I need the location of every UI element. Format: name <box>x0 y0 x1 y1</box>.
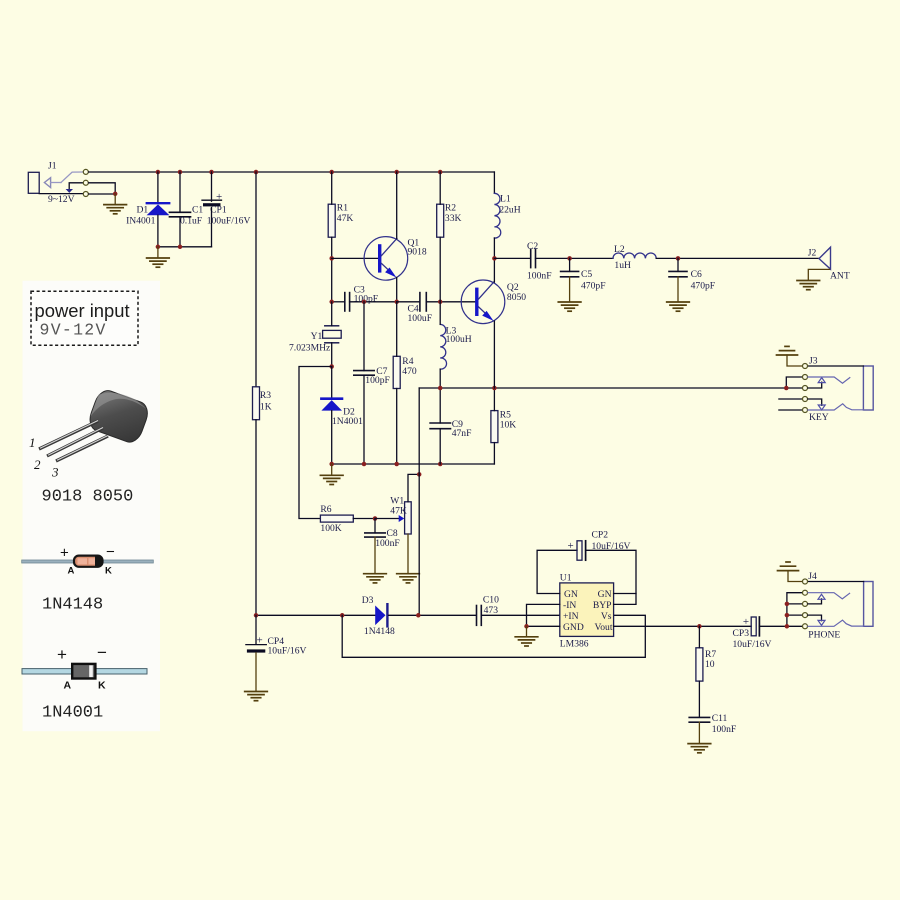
svg-text:GND: GND <box>563 622 584 633</box>
node rail C1 <box>178 170 183 175</box>
svg-text:1N4001: 1N4001 <box>332 416 363 427</box>
svg-text:47nF: 47nF <box>452 428 472 439</box>
svg-text:+: + <box>216 191 222 203</box>
J4 pin 1 circle <box>803 579 808 584</box>
resistor R7 <box>696 648 703 681</box>
wire Q1 emitter vertical <box>396 278 398 302</box>
wire Y1 node to R6 branch <box>299 367 332 519</box>
wire GN left pin to CP2 <box>537 550 577 593</box>
svg-text:+: + <box>743 616 749 628</box>
svg-text:10uF/16V: 10uF/16V <box>268 646 307 657</box>
wire C1 top <box>179 172 181 212</box>
svg-text:+: + <box>568 540 574 552</box>
wire J3 pin1 to body <box>808 365 864 367</box>
resistor R6 horizontal <box>320 515 353 522</box>
svg-text:power input: power input <box>35 300 130 321</box>
diode D1 <box>147 203 170 215</box>
svg-text:−: − <box>97 643 107 662</box>
svg-text:0.1uF: 0.1uF <box>180 215 202 226</box>
svg-text:1uH: 1uH <box>614 260 631 271</box>
J3 pin 5 circle <box>803 408 808 413</box>
wire R2 bottom <box>439 237 441 302</box>
svg-text:J3: J3 <box>809 355 818 366</box>
wire Vs feedback loop <box>342 615 645 657</box>
ground J1 <box>104 205 127 214</box>
svg-text:C1: C1 <box>192 205 203 216</box>
resistor R2 <box>437 204 444 237</box>
capacitor C2 <box>531 249 536 267</box>
svg-text:BYP: BYP <box>593 600 612 611</box>
svg-text:L2: L2 <box>614 244 625 255</box>
svg-text:Y1: Y1 <box>311 331 323 342</box>
svg-text:J2: J2 <box>808 247 817 258</box>
wire bottom bus D1-C1-CP1 <box>158 246 212 248</box>
wire R6 right to C8 node <box>353 518 375 520</box>
svg-text:9018 8050: 9018 8050 <box>42 488 134 507</box>
svg-text:473: 473 <box>484 605 499 616</box>
svg-text:C5: C5 <box>581 269 592 280</box>
power input dashed box <box>31 291 138 345</box>
svg-text:8050: 8050 <box>507 292 526 303</box>
node bottom rail C7 <box>362 462 367 467</box>
svg-text:9V-12V: 9V-12V <box>40 321 107 340</box>
capacitor C9 <box>430 423 450 429</box>
wire R7 top <box>698 626 700 648</box>
J1 switch lever <box>61 172 83 183</box>
wire CP4 top <box>255 615 257 644</box>
capacitor C11 <box>689 717 709 722</box>
diode photo 1N4001 <box>22 643 147 692</box>
transistor photo TO-92 <box>29 386 152 479</box>
svg-text:470pF: 470pF <box>691 280 716 291</box>
node Q1 emitter / R4 <box>394 300 399 305</box>
svg-text:IN4001: IN4001 <box>126 215 156 226</box>
svg-text:10: 10 <box>705 659 715 670</box>
wire C4 line left <box>397 301 420 303</box>
wire CP2 right to BYP <box>586 550 636 604</box>
ground bottom rail <box>320 475 343 484</box>
node KEY Q2 emitter <box>492 386 497 391</box>
inductor L1 <box>494 193 500 238</box>
wire Y1 top <box>331 302 333 326</box>
node bottom bus D1 <box>156 245 161 250</box>
J1 pin 1 circle <box>83 169 88 174</box>
svg-text:100uF/16V: 100uF/16V <box>207 215 251 226</box>
wire Q1 base <box>332 257 378 259</box>
wire L3 bottom <box>439 369 441 388</box>
wire Y1 bottom <box>331 343 333 367</box>
wire pin3 to ground node <box>89 193 116 195</box>
wire ground stem C6 <box>677 277 679 302</box>
svg-text:C6: C6 <box>691 269 702 280</box>
wire audio line left <box>256 614 375 616</box>
wire CP1 top <box>211 172 213 201</box>
node R2 L3 base junction <box>438 300 443 305</box>
ground J4 inverted <box>778 562 799 571</box>
svg-text:A: A <box>68 566 75 577</box>
svg-text:+: + <box>257 635 263 647</box>
svg-text:A: A <box>64 680 72 692</box>
connector J4 jack body <box>864 582 873 627</box>
J1 down arrow contact <box>66 189 73 193</box>
transistor Q1 <box>364 237 408 281</box>
svg-text:J4: J4 <box>808 571 817 582</box>
svg-text:100K: 100K <box>320 523 341 534</box>
node audio R3 CP4 <box>254 613 259 618</box>
J3 pin 2 circle <box>803 375 808 380</box>
wire D2 top <box>331 367 333 399</box>
node rail R3 <box>254 170 259 175</box>
node rail CP1 <box>209 170 214 175</box>
svg-text:1N4001: 1N4001 <box>42 704 103 723</box>
capacitor CP4 electrolytic <box>246 645 266 653</box>
svg-text:2: 2 <box>34 457 41 472</box>
wire ground stem C8 <box>374 537 376 573</box>
node bottom rail C9 <box>438 462 443 467</box>
svg-text:L1: L1 <box>500 194 511 205</box>
IC U1 LM386 box <box>560 583 614 637</box>
svg-text:47K: 47K <box>337 213 354 224</box>
svg-text:U1: U1 <box>560 573 572 584</box>
svg-text:ANT: ANT <box>830 271 850 282</box>
wire pin2 to ground node <box>89 183 116 194</box>
svg-text:10uF/16V: 10uF/16V <box>733 639 772 650</box>
svg-text:-IN: -IN <box>563 600 576 611</box>
J3 pin 4 circle <box>803 397 808 402</box>
wire ground stem J1 <box>114 194 116 205</box>
wire ground stem bottom rail <box>331 464 333 475</box>
node W1 top on KEY vertical <box>417 472 422 477</box>
node Y1 bottom junction <box>329 364 334 369</box>
wire Q2 collector vertical <box>493 258 495 282</box>
connector J1 power jack body <box>28 172 39 193</box>
capacitor C7 <box>354 371 374 376</box>
wire W1 top to KEY vertical <box>408 474 419 501</box>
node KEY J3 <box>784 386 789 391</box>
wire C7 bottom <box>363 375 365 464</box>
resistor R4 <box>393 356 400 388</box>
ground C5 <box>558 302 581 311</box>
node J1 ground junction <box>113 192 118 197</box>
svg-text:1N4148: 1N4148 <box>364 626 395 637</box>
wire Q2 emitter vertical <box>493 321 495 388</box>
svg-text:R6: R6 <box>320 504 331 515</box>
J1 pin 3 circle <box>83 192 88 197</box>
svg-text:C2: C2 <box>527 241 538 252</box>
wire D2 bottom <box>331 411 333 464</box>
wire audio line mid <box>389 614 477 616</box>
wire R1 bottom to C3 node <box>331 237 333 302</box>
J1 plug tip triangle <box>44 178 50 188</box>
wire R4 bottom <box>396 389 398 465</box>
svg-text:R3: R3 <box>260 390 271 401</box>
wire C4 line right to Q2 base <box>426 301 477 303</box>
wire J3 pin4 stub <box>779 398 802 400</box>
node rail D1 <box>156 170 161 175</box>
ground J3 inverted <box>777 346 798 355</box>
capacitor C6 <box>669 271 687 276</box>
wire ground stem CP4 <box>255 653 257 692</box>
svg-text:100uF: 100uF <box>408 313 433 324</box>
wire GND pin stub <box>527 625 560 627</box>
capacitor C4 <box>420 293 426 311</box>
svg-text:+: + <box>57 645 67 664</box>
node J4 pin5 <box>785 624 790 629</box>
svg-text:C11: C11 <box>712 713 728 724</box>
capacitor C1 <box>170 212 191 217</box>
svg-text:LM386: LM386 <box>560 639 589 650</box>
capacitor CP2 electrolytic <box>577 541 586 560</box>
wire C9 top <box>439 388 441 423</box>
capacitor C3 <box>345 293 350 311</box>
node KEY L3 C9 <box>438 386 443 391</box>
wire R3 vertical top <box>255 172 257 387</box>
svg-text:GN: GN <box>564 589 578 600</box>
node audio KEY vertical <box>416 613 421 618</box>
wire J4 pin3 switch stem <box>808 599 822 604</box>
svg-text:D1: D1 <box>137 205 149 216</box>
svg-text:47K: 47K <box>390 505 407 516</box>
svg-text:3: 3 <box>51 465 59 480</box>
ground C11 <box>688 744 711 753</box>
node bottom rail D2 <box>329 462 334 467</box>
wire J4 pin4 switch stem <box>808 615 822 621</box>
J3 pin 1 circle <box>803 364 808 369</box>
svg-text:1: 1 <box>29 435 36 450</box>
capacitor C8 <box>365 533 385 537</box>
wire J4 pin3 stub <box>787 603 802 605</box>
node Vout R7 <box>697 624 702 629</box>
svg-text:100nF: 100nF <box>527 271 552 282</box>
capacitor CP3 electrolytic <box>751 617 759 636</box>
svg-text:470: 470 <box>402 366 417 377</box>
svg-text:D3: D3 <box>362 595 374 606</box>
wire RF line to C2 <box>494 257 530 259</box>
ground D1 <box>147 258 170 267</box>
wire J1 tip stub <box>51 182 61 184</box>
svg-text:+: + <box>60 545 69 562</box>
wire C9 bottom <box>439 429 441 464</box>
svg-text:J1: J1 <box>48 161 57 172</box>
wire R1 top <box>331 172 333 204</box>
wire R4 top <box>396 302 398 357</box>
wire R5 top <box>493 388 495 411</box>
capacitor C10 <box>477 606 482 626</box>
wire R5 bottom <box>493 443 495 464</box>
svg-text:KEY: KEY <box>809 412 829 423</box>
wire L1 bottom <box>493 238 495 258</box>
wire KEY vertical down <box>418 388 420 615</box>
wire ANT ground path <box>808 269 829 280</box>
J4 switch contact bottom <box>808 620 864 626</box>
wire J4 pin4 stub <box>787 614 802 616</box>
resistor R3 <box>253 387 260 420</box>
ground C8 <box>364 574 387 583</box>
wire bottom rail <box>332 463 495 465</box>
svg-text:−: − <box>106 544 115 561</box>
wire C8 top <box>374 519 376 533</box>
resistor R1 <box>328 204 335 237</box>
J4 switch contact top <box>808 593 850 599</box>
node C6 <box>676 256 681 261</box>
wire KEY line <box>419 387 786 389</box>
svg-text:K: K <box>105 566 112 577</box>
wire audio line to +IN <box>481 614 560 616</box>
node rail R2 <box>438 170 443 175</box>
wire J3 pin4 switch stem <box>808 399 822 405</box>
wire to W1 wiper <box>375 518 399 520</box>
node rail R1 <box>329 170 334 175</box>
svg-text:GN: GN <box>598 589 612 600</box>
wire ground stem D1 <box>157 247 159 258</box>
wire ground stem W1 <box>407 534 409 574</box>
wire C2 to C5 node <box>536 257 614 259</box>
svg-text:22uH: 22uH <box>499 205 520 216</box>
transistor Q2 <box>461 280 505 324</box>
wire L2 to C6 node <box>656 257 819 259</box>
ground U1 <box>515 637 538 646</box>
wire ground stem J4 <box>788 571 802 582</box>
wire ground stem U1 <box>526 626 528 636</box>
J3 switch down arrow <box>818 405 825 410</box>
crystal Y1 <box>323 326 342 343</box>
node bottom bus C1 <box>178 245 183 250</box>
node U1 GND <box>524 624 529 629</box>
wire D1 top <box>157 172 159 202</box>
node Q1 base junction <box>329 256 334 261</box>
svg-text:1K: 1K <box>260 402 272 413</box>
svg-text:9018: 9018 <box>408 246 427 257</box>
J4 switch down arrow <box>818 620 825 625</box>
wire CP3 to J4 <box>759 625 802 627</box>
node C5 <box>567 256 572 261</box>
wire J3 pin3 switch stem <box>808 382 822 388</box>
node rail Q1 collector <box>394 170 399 175</box>
wire ground stem C5 <box>569 277 571 302</box>
ground CP4 <box>245 692 268 701</box>
wire D1 bottom <box>157 215 159 247</box>
node C3 line left <box>329 300 334 305</box>
svg-text:C10: C10 <box>483 595 499 606</box>
J3 pin 3 circle <box>803 386 808 391</box>
J3 switch contact bottom <box>808 404 864 410</box>
ground W1 <box>397 574 420 583</box>
wire C7 top <box>363 302 365 371</box>
wire GN right stub <box>614 593 636 595</box>
svg-text:CP1: CP1 <box>210 205 227 216</box>
wire R7 to C11 <box>698 681 700 717</box>
svg-text:100nF: 100nF <box>712 724 737 735</box>
wire C5 top <box>569 258 571 271</box>
node audio Vs branch <box>340 613 345 618</box>
node C7 top <box>362 300 367 305</box>
J1 pin 2 circle <box>83 180 88 185</box>
wire L1 top stub <box>493 172 495 193</box>
wire J1 sleeve bottom <box>39 193 82 195</box>
diode D2 <box>321 399 342 411</box>
wire C1 bottom <box>179 217 181 247</box>
svg-text:R1: R1 <box>337 203 348 214</box>
wire L3 top <box>439 302 441 325</box>
svg-text:470pF: 470pF <box>581 280 606 291</box>
resistor R5 <box>491 411 498 443</box>
inductor L2 <box>613 253 656 258</box>
wire J1 pin2 to down-contact <box>69 183 82 189</box>
wire J3 pin2 tie <box>786 377 802 388</box>
component photo panel background <box>23 281 161 732</box>
J3 switch contact top <box>808 377 850 383</box>
node R6 C8 W1 junction <box>373 516 378 521</box>
node J4 pin4 <box>785 613 790 618</box>
diode photo 1N4148 <box>22 544 154 577</box>
svg-text:9~12V: 9~12V <box>48 194 75 205</box>
svg-text:PHONE: PHONE <box>808 630 840 641</box>
svg-text:33K: 33K <box>445 213 462 224</box>
wire R3 vertical bottom <box>255 420 257 616</box>
svg-text:CP2: CP2 <box>592 529 609 540</box>
wire J4 pin1 to body <box>808 581 864 583</box>
svg-text:1N4148: 1N4148 <box>42 595 103 614</box>
wire ground stem J3 <box>787 355 802 366</box>
svg-text:Vout: Vout <box>595 622 613 633</box>
capacitor CP1 electrolytic <box>202 200 222 206</box>
inductor L3 <box>440 324 446 369</box>
wire J3 pin5 stub <box>779 409 802 411</box>
J4 switch up arrow <box>818 594 825 599</box>
svg-text:10K: 10K <box>500 419 517 430</box>
ground C6 <box>667 302 690 311</box>
wire C6 top <box>677 258 679 271</box>
svg-text:R2: R2 <box>445 203 456 214</box>
wire C3 line right <box>350 301 397 303</box>
svg-text:100uH: 100uH <box>446 334 472 345</box>
potentiometer W1 <box>405 502 412 534</box>
wire VCC rail <box>89 171 495 173</box>
wire -IN to GND node <box>527 604 560 626</box>
J4 pin 5 circle <box>803 624 808 629</box>
J3 switch up arrow <box>818 378 825 383</box>
svg-text:7.023MHz: 7.023MHz <box>289 342 330 353</box>
svg-text:100nF: 100nF <box>375 538 400 549</box>
wire J3 pin3 tie <box>786 387 802 389</box>
connector J2 antenna triangle <box>819 247 831 269</box>
wire C3 line left <box>332 301 345 303</box>
svg-text:100pF: 100pF <box>365 375 390 386</box>
wire R2 top <box>439 172 441 204</box>
node RF L1 Q2 collector <box>492 256 497 261</box>
J4 pin 3 circle <box>803 601 808 606</box>
svg-text:Vs: Vs <box>601 611 612 622</box>
diode D3 <box>375 604 387 626</box>
J4 pin 2 circle <box>803 590 808 595</box>
node bottom rail R4 <box>394 462 399 467</box>
wire J4 pin tie vertical <box>787 593 802 627</box>
svg-text:K: K <box>98 680 106 692</box>
wire ground stem C11 <box>698 722 700 743</box>
J4 pin 4 circle <box>803 613 808 618</box>
ground ANT <box>797 281 820 290</box>
wire Vout line <box>614 625 752 627</box>
node J4 pin3 <box>785 602 790 607</box>
wire Q1 collector vertical <box>396 172 398 239</box>
wire CP1 bottom <box>211 208 213 247</box>
W1 wiper arrow <box>399 515 405 522</box>
svg-text:+IN: +IN <box>563 611 579 622</box>
connector J3 jack body <box>863 366 873 410</box>
capacitor C5 <box>561 271 579 276</box>
svg-text:CP3: CP3 <box>733 628 750 639</box>
